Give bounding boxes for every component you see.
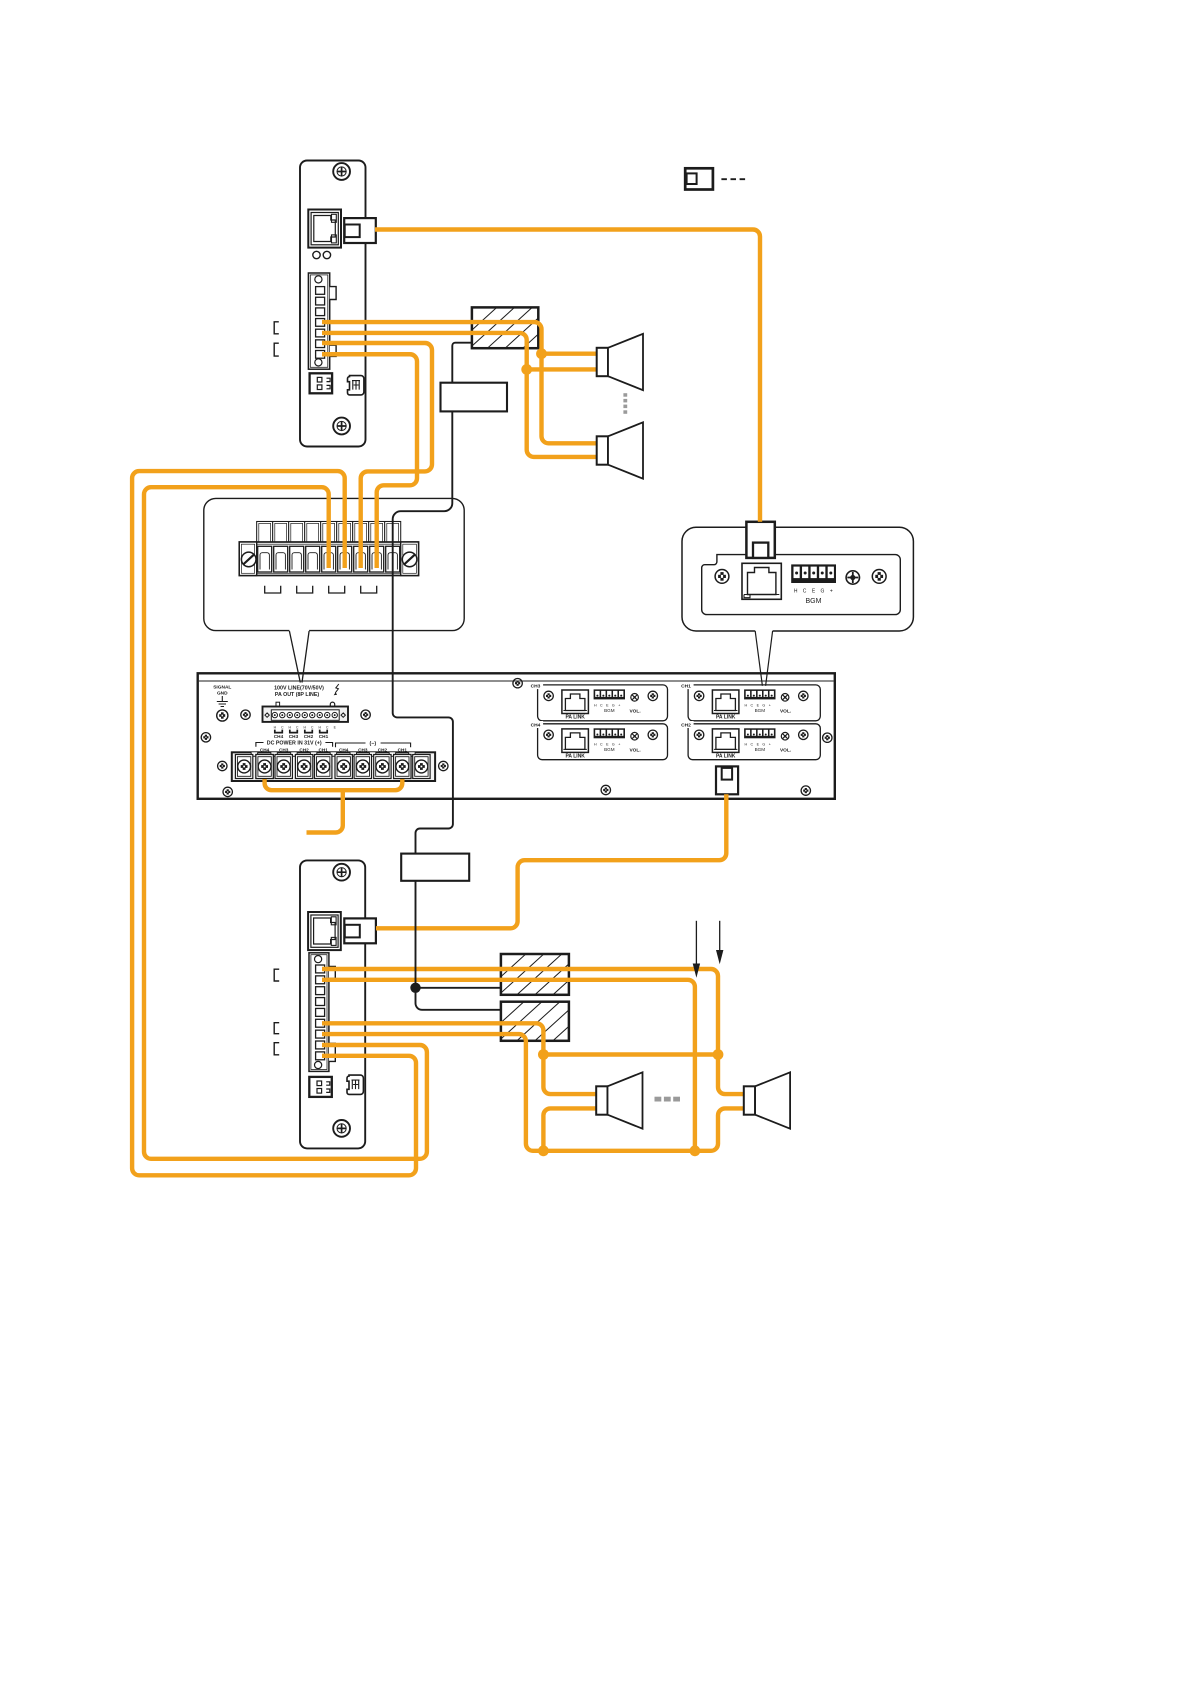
wire: M2 terminal 6 through AT3 to SP3 + <box>322 1023 597 1094</box>
wire: M1 terminal 7 to block cell 8 <box>322 354 417 568</box>
junction dot A <box>536 348 547 359</box>
M1 aux connector <box>348 376 364 395</box>
panel screw <box>241 710 250 719</box>
M1 mounting screw bottom <box>333 418 350 435</box>
svg-text:CH1: CH1 <box>681 684 691 690</box>
attenuator (hatched) box AT2 <box>481 954 634 995</box>
M2 RJ45 jack <box>308 912 341 950</box>
svg-text:G: G <box>820 588 824 594</box>
svg-text:BGM: BGM <box>755 708 766 713</box>
junction dot J2 <box>713 1049 724 1060</box>
legend: cable plug symbol <box>685 168 713 189</box>
svg-text:PA OUT (8P LINE): PA OUT (8P LINE) <box>275 692 320 698</box>
svg-text:+: + <box>769 704 771 708</box>
M2 aux connector <box>347 1075 363 1094</box>
DC POWER terminal block <box>232 752 435 781</box>
svg-text:BGM: BGM <box>806 598 822 605</box>
wire: M1 RJ45 plug to BGM module plug <box>375 230 760 522</box>
svg-text:H: H <box>744 704 747 708</box>
DC screw terminal <box>295 755 312 779</box>
callout bubble for BGM module <box>682 527 913 631</box>
label box LB1 <box>441 383 508 412</box>
svg-text:PA LINK: PA LINK <box>565 753 585 759</box>
panel screw <box>823 733 832 742</box>
CH2 amplifier slot <box>681 721 821 760</box>
wire: M2 terminal 7 through AT3 to SP3/SP4 - <box>322 1034 745 1151</box>
attenuator (hatched) box AT3 <box>481 1002 632 1041</box>
M2 power connector <box>309 1077 332 1097</box>
svg-text:BGM: BGM <box>604 747 615 752</box>
wire: branch to SP1 - <box>527 367 598 371</box>
svg-text:CH2: CH2 <box>304 734 314 739</box>
svg-text:H: H <box>794 588 798 594</box>
M2 mounting screw bottom <box>333 1120 350 1137</box>
svg-text:VOL.: VOL. <box>629 709 640 715</box>
svg-text:BGM: BGM <box>604 708 615 713</box>
wire: M2 terminal 9 long loop to block cell 6 <box>132 471 416 1175</box>
svg-text:+: + <box>618 743 620 747</box>
svg-text:H: H <box>594 743 597 747</box>
terminal pair brackets under block <box>265 586 281 593</box>
svg-text:CH3: CH3 <box>289 734 299 739</box>
svg-text:CH4: CH4 <box>531 722 541 728</box>
DC channel labels <box>260 748 407 753</box>
svg-text:C: C <box>803 588 807 594</box>
junction dot J1 <box>538 1049 549 1060</box>
callout bubble for PA OUT terminal block <box>204 498 464 630</box>
GND screw <box>217 710 228 721</box>
hazard lightning arrow <box>334 684 339 695</box>
svg-text:100V LINE(70V/50V): 100V LINE(70V/50V) <box>274 685 324 691</box>
svg-text:CH1: CH1 <box>319 734 329 739</box>
svg-text:SIGNAL: SIGNAL <box>213 685 231 691</box>
BGM 5P connector <box>791 564 836 583</box>
black junction dot <box>410 983 420 993</box>
wire: M2 terminal 1 through AT2 to SP4 + <box>322 969 718 1055</box>
attenuator (hatched) box AT1 <box>452 307 603 348</box>
black control wire: AT1 to PA OUT cell 9 and down the panel <box>393 343 472 988</box>
svg-text:VOL.: VOL. <box>780 748 791 754</box>
svg-text:DC POWER IN 31V (+): DC POWER IN 31V (+) <box>267 740 322 746</box>
BGM pin labels <box>794 588 833 594</box>
amplifier rear panel <box>198 673 835 799</box>
svg-text:CH2: CH2 <box>681 722 691 728</box>
wire: M2 terminal 8 long loop to block cell 5 <box>144 487 427 1159</box>
M1 status LEDs <box>313 251 331 258</box>
PA OUT pair brackets <box>275 730 327 733</box>
panel screw <box>439 761 448 770</box>
M1 terminal strip <box>308 273 336 369</box>
M2 mounting screw top <box>333 864 350 881</box>
svg-text:G: G <box>762 743 765 747</box>
BGM volume pot <box>846 571 859 584</box>
module M1 faceplate <box>300 161 366 447</box>
panel screw <box>218 761 227 770</box>
M1 pair bracket 1 <box>274 322 279 334</box>
DC screw terminal <box>354 755 371 779</box>
svg-text:C: C <box>750 704 753 708</box>
DC screw terminal <box>394 755 411 779</box>
callout tail: terminal block to PA OUT <box>289 631 309 683</box>
DC screw terminal <box>374 755 391 779</box>
speaker SP3 <box>596 1072 642 1128</box>
junction dot B <box>521 364 532 375</box>
black control wire: junction to AT3 <box>416 988 501 1010</box>
ellipsis between SP3 and SP4 <box>655 1097 681 1102</box>
wire: junction J4 up to SP3 - <box>543 1108 597 1150</box>
speaker SP1 <box>597 334 643 390</box>
DC screw terminal <box>256 755 273 779</box>
M1 mounting screw top <box>333 163 350 180</box>
junction dot J3 <box>690 1145 701 1156</box>
svg-text:CH4: CH4 <box>274 734 284 739</box>
svg-text:+: + <box>769 743 771 747</box>
M1 power connector <box>310 373 333 393</box>
wire: M1 terminal 4 hot to speakers SP1/SP2 (through AT1) <box>322 322 598 443</box>
CH4 amplifier slot <box>530 721 667 760</box>
panel screw <box>801 786 810 795</box>
svg-text:H: H <box>594 704 597 708</box>
svg-text:VOL.: VOL. <box>629 748 640 754</box>
svg-text:VOL.: VOL. <box>780 709 791 715</box>
wire: junction J1 to junction J2 <box>543 1052 718 1056</box>
svg-text:PA LINK: PA LINK <box>716 715 736 721</box>
M2 RJ45 cable plug <box>344 918 376 943</box>
DC screw terminal CH4+ (overlay) <box>256 755 273 779</box>
svg-text:G: G <box>612 743 615 747</box>
M1 RJ45 cable plug <box>344 218 376 243</box>
wire: junction J2 down to SP4 + <box>718 1055 745 1095</box>
CH2 PA LINK cable plug <box>716 766 738 794</box>
DC screw terminal <box>235 755 252 779</box>
wire: DC power stub to supply <box>307 790 343 832</box>
DC minus label <box>336 741 411 747</box>
junction dot J4 <box>538 1145 549 1156</box>
svg-text:G: G <box>612 704 615 708</box>
label box LB2 <box>401 854 469 881</box>
svg-text:(−): (−) <box>369 741 376 747</box>
panel screw <box>223 787 232 796</box>
svg-text:PA LINK: PA LINK <box>565 715 585 721</box>
svg-text:C: C <box>600 704 603 708</box>
CH1 amplifier slot <box>681 682 821 721</box>
BGM screw left <box>715 570 729 584</box>
M2 terminal strip <box>309 953 335 1072</box>
screw terminal block (callout) <box>239 522 418 576</box>
speaker SP2 <box>597 422 643 478</box>
panel screw <box>513 679 522 688</box>
wire: DC power CH4+ / CH1- to power supply <box>265 769 403 790</box>
black control wire: junction to AT2 <box>416 987 501 989</box>
panel screw <box>201 733 210 742</box>
svg-text:PA LINK: PA LINK <box>716 753 736 759</box>
panel screw <box>361 710 370 719</box>
M2 pair bracket 3 <box>274 1043 279 1055</box>
DC POWER IN label <box>256 740 333 746</box>
wire: M1 terminal 5 return to speakers SP1/SP2 <box>322 333 598 457</box>
DC screw terminal <box>315 755 332 779</box>
svg-text:G: G <box>762 704 765 708</box>
reference arrow 1 <box>693 921 700 978</box>
svg-text:BGM: BGM <box>755 747 766 752</box>
SIGNAL GND label <box>213 685 231 697</box>
module M2 faceplate <box>300 860 365 1148</box>
svg-text:C: C <box>600 743 603 747</box>
svg-text:GND: GND <box>217 691 228 697</box>
wire: M1 terminal 6 to block cell 7 <box>322 343 432 568</box>
wire: CH2 PA LINK plug to M2 RJ45 plug <box>376 794 726 928</box>
M2 pair bracket 2 <box>274 1023 279 1034</box>
svg-text:+: + <box>618 704 620 708</box>
M2 pair bracket 1 <box>274 969 279 981</box>
BGM RJ45 jack <box>742 563 781 599</box>
panel screw <box>601 785 610 794</box>
callout tail: BGM module to CH1 connector <box>755 631 772 686</box>
DC screw terminal <box>413 755 430 779</box>
M1 pair bracket 2 <box>274 343 279 356</box>
BGM screw right <box>872 570 886 584</box>
DC screw terminal <box>335 755 352 779</box>
PA OUT channel labels <box>274 734 329 739</box>
ground symbol <box>217 696 228 707</box>
PA OUT pin letters <box>274 725 337 729</box>
wire: branch to SP1 + <box>542 352 598 356</box>
BGM module outline <box>702 555 901 615</box>
PA OUT 8P connector <box>263 702 349 722</box>
svg-text:+: + <box>830 588 833 594</box>
ellipsis between SP1 and SP2 <box>623 393 627 414</box>
DC screw terminal <box>275 755 292 779</box>
M1 RJ45 jack <box>308 210 341 248</box>
legend: dashed continuation line <box>721 178 745 180</box>
speaker SP4 <box>744 1072 790 1128</box>
svg-text:H: H <box>744 743 747 747</box>
BGM cable plug <box>746 522 774 558</box>
svg-text:C: C <box>750 743 753 747</box>
reference arrow 2 <box>716 921 723 964</box>
svg-text:CH3: CH3 <box>531 684 541 690</box>
wire: M2 terminal 2 through AT2 to SP4 - <box>322 980 695 1151</box>
CH3 amplifier slot <box>530 682 667 721</box>
DC screw terminal CH1- (overlay) <box>394 755 411 779</box>
